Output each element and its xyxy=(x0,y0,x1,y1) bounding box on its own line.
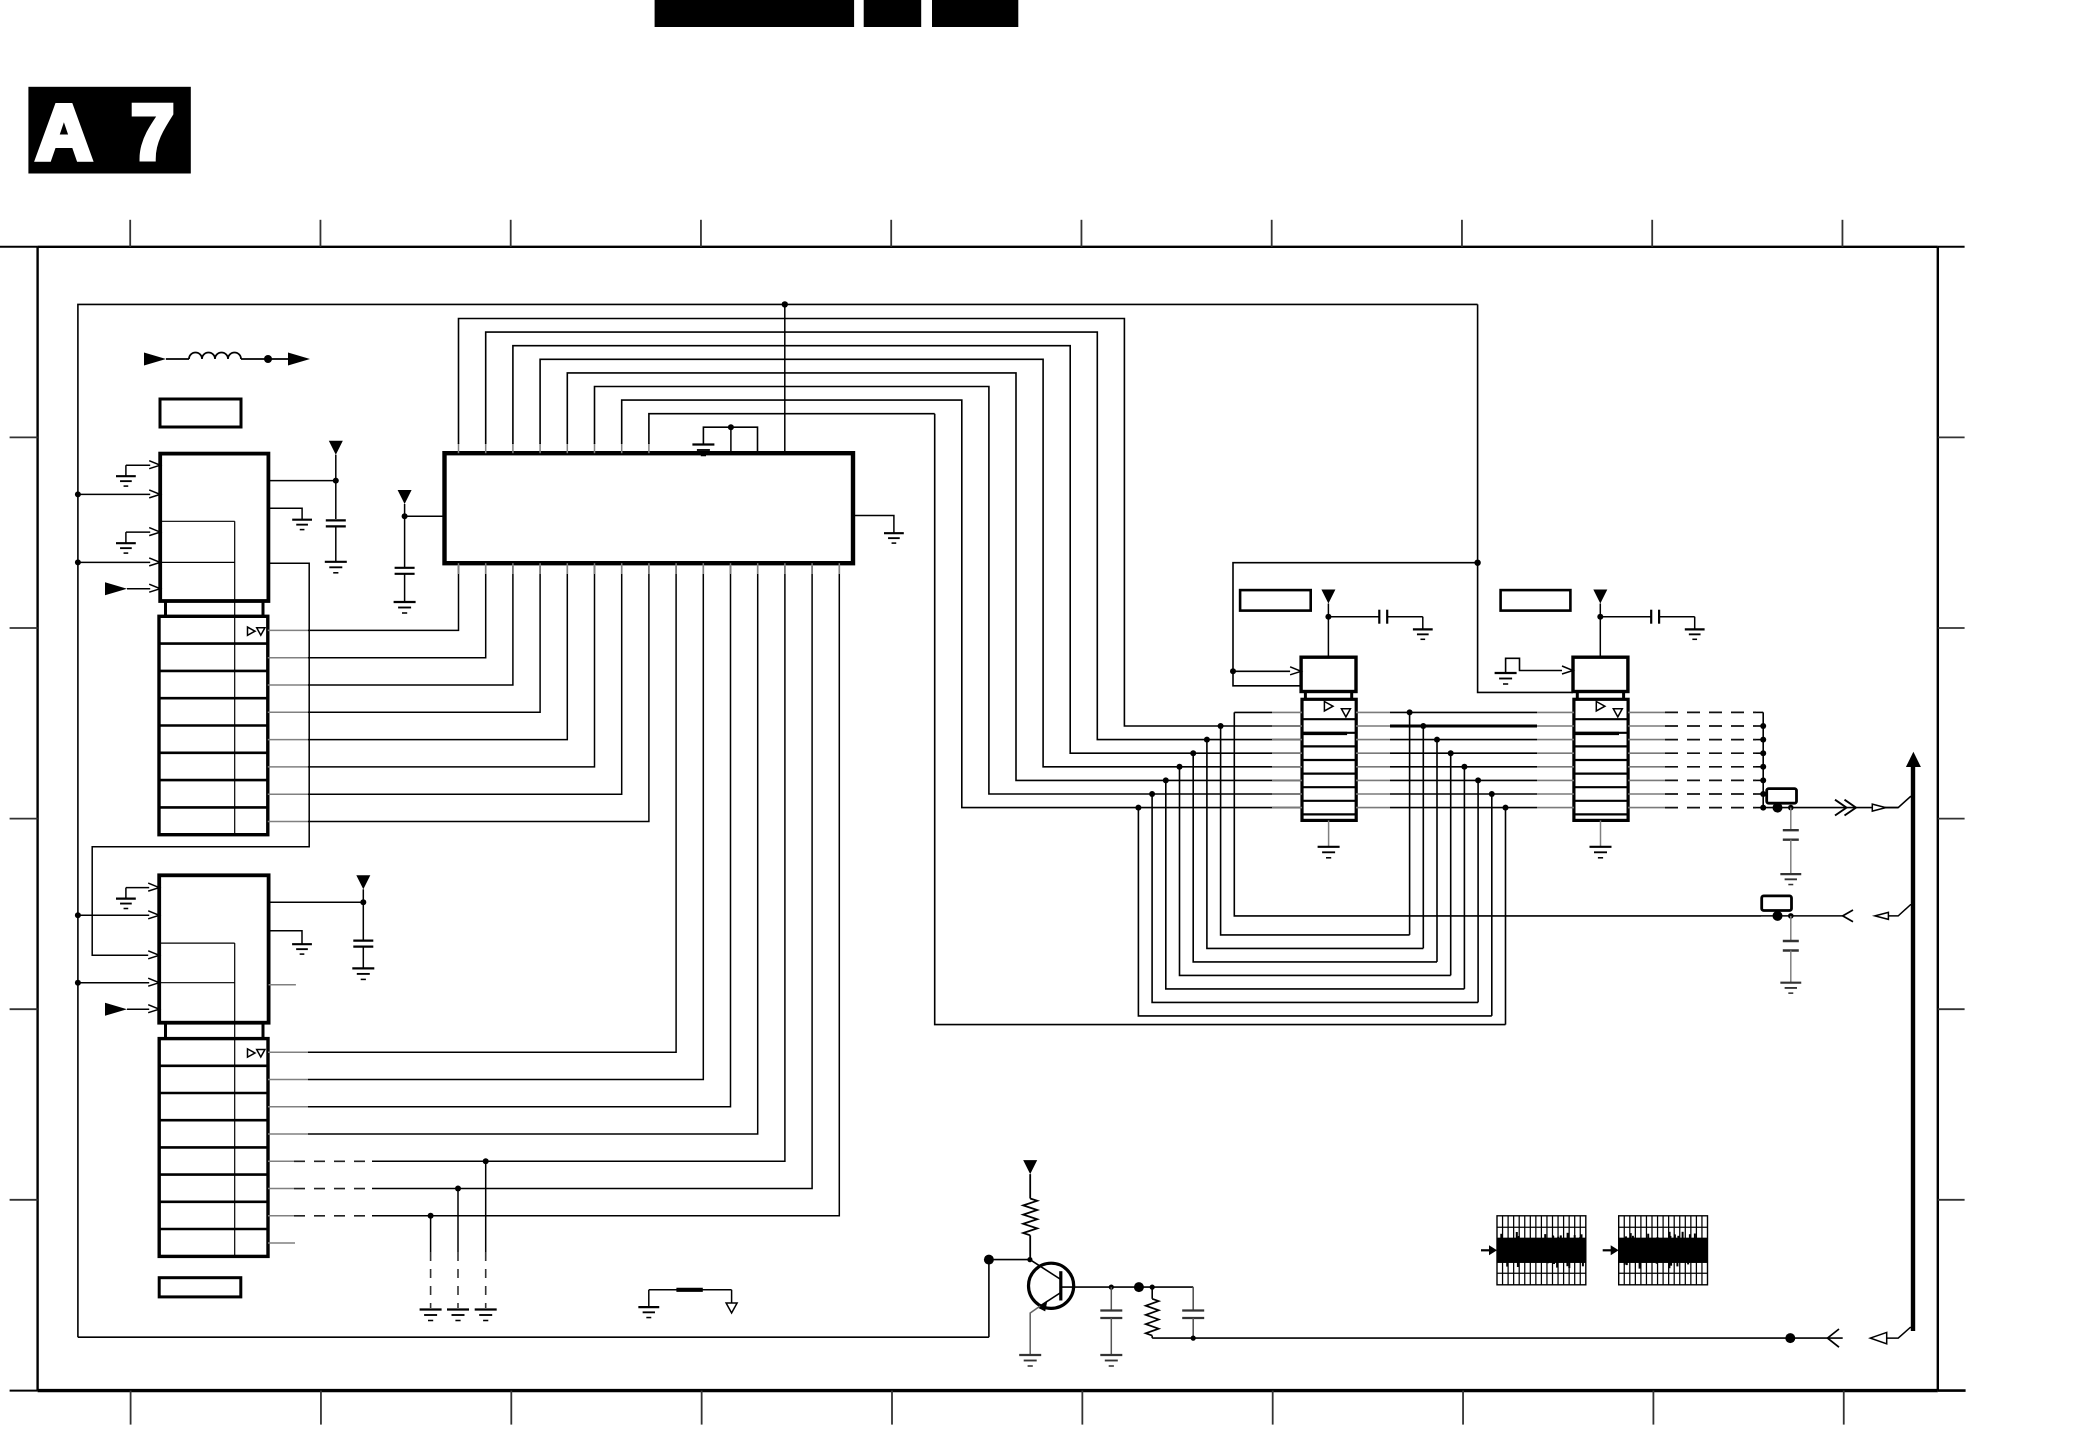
inverted mark U3 xyxy=(1613,709,1622,717)
wire J1 to VCC node xyxy=(268,480,335,482)
wire J1 row5 to U1 pin5 xyxy=(268,739,308,741)
wire row5 between U2 and U3 xyxy=(1356,766,1390,768)
junction row6 collector xyxy=(1760,777,1766,783)
junction loop U2/U3 xyxy=(1474,560,1480,566)
junction row4 left tap xyxy=(1190,750,1196,756)
redaction bar 2 xyxy=(864,0,922,27)
pin J1-3 with ground xyxy=(116,528,160,554)
value label box output 1 xyxy=(1767,789,1797,804)
stub J2 row8 xyxy=(268,1242,295,1244)
junction output 1 cap xyxy=(1788,805,1794,811)
wire U1 top bracket xyxy=(703,427,757,453)
wire row4 right tap vertical xyxy=(1450,753,1452,975)
ground below C1 xyxy=(325,561,347,563)
wire row1 right of U3 (dashed) xyxy=(1628,711,1665,713)
power VCC arrow at J1 xyxy=(329,441,343,455)
junction VCC U1 xyxy=(402,513,408,519)
connector J2 body xyxy=(159,875,268,1038)
wire row8 right of U3 (dashed) xyxy=(1628,807,1665,809)
wire row1 between U2 and U3 xyxy=(1356,711,1390,713)
wire loop to U3 enable xyxy=(1478,563,1573,693)
wire output 1 to bus xyxy=(1885,797,1914,808)
pin stubs U1 bottom 1-8 xyxy=(459,563,649,574)
jumper W1 with grounds xyxy=(649,1290,732,1307)
wire VCC stem U2 xyxy=(1327,604,1329,658)
ground at U1 top bracket xyxy=(692,443,714,445)
pin J1 ground right xyxy=(268,508,302,519)
arrow into FB1 xyxy=(1481,1245,1497,1255)
wire U1 top pin6 bus xyxy=(594,443,596,453)
frame tick marks bottom xyxy=(131,1391,1844,1425)
wire J1 right pin to J2 xyxy=(92,563,309,955)
ground at U1 right pin xyxy=(884,532,904,534)
transistor Q1 xyxy=(1029,1260,1074,1355)
wire row4 right of U3 (dashed) xyxy=(1628,752,1665,754)
wire base node xyxy=(989,1259,1030,1261)
shield block FB2 xyxy=(1619,1216,1708,1285)
arrow into FB2 xyxy=(1603,1245,1619,1255)
wire U1 pin8 long route to B2 row1 xyxy=(935,414,1506,1025)
bar inside U3 xyxy=(1574,732,1619,735)
IC U2 upper body xyxy=(1301,657,1356,699)
value label box U3 xyxy=(1501,590,1571,611)
power VCC arrow at J2 xyxy=(356,875,370,889)
open triangle at jumper right xyxy=(726,1303,737,1313)
wire row2 right tap vertical xyxy=(1422,726,1424,948)
frame tick marks left xyxy=(10,437,38,1199)
junction row1 right tap xyxy=(1407,709,1413,715)
ground below C6 xyxy=(1100,1354,1122,1356)
wire ground tap row5 xyxy=(485,1161,487,1252)
junction row8 left tap xyxy=(1135,805,1141,811)
frame tick marks top xyxy=(130,220,1842,247)
IC U3 upper body xyxy=(1573,657,1628,699)
wire row8 right tap vertical xyxy=(1505,808,1507,1025)
wire J1 row3 to U1 pin3 xyxy=(268,684,308,686)
wire VCC stem J1 xyxy=(335,455,337,519)
junction row5 right tap xyxy=(1461,764,1467,770)
wire VCC to U1 left pin xyxy=(405,504,445,568)
ground tap row6 xyxy=(447,1308,469,1310)
junction VCC U2 xyxy=(1325,614,1331,620)
junction row3 collector xyxy=(1760,737,1766,743)
wire row2 left of U2 xyxy=(1272,725,1302,727)
wire row4 left of U2 xyxy=(1272,752,1302,754)
wire row5 right tap vertical xyxy=(1463,767,1465,989)
wire row4 U-loop bottom xyxy=(1193,753,1437,962)
capacitor C3 xyxy=(395,568,415,602)
wire U1 top pin7 bus xyxy=(621,443,623,453)
junction row2 right tap xyxy=(1420,723,1426,729)
value label box U2 xyxy=(1240,590,1311,611)
wire emitter net bottom xyxy=(1152,1337,1843,1339)
bar inside U2 xyxy=(1302,732,1347,735)
capacitor C6 xyxy=(1100,1287,1122,1355)
wire ground tap row7 xyxy=(430,1216,432,1252)
power VCC arrow at U1 left xyxy=(398,490,412,504)
node big output 1 xyxy=(1773,803,1783,813)
wire row7 right of U3 (dashed) xyxy=(1628,793,1665,795)
wire J2 to VCC node xyxy=(269,901,364,903)
power VCC arrow at Q1 xyxy=(1023,1160,1037,1174)
inverted mark U2 xyxy=(1341,709,1350,717)
connector J1 pin table xyxy=(159,616,268,834)
wire U1 top pin5 bus xyxy=(566,443,568,453)
junction row5 left tap xyxy=(1177,764,1183,770)
chevron bottom input xyxy=(1828,1329,1840,1347)
open arrow bottom input xyxy=(1870,1332,1886,1343)
pin stubs U1 bottom 9-15 xyxy=(676,563,839,574)
wire row7 right tap vertical xyxy=(1491,794,1493,1016)
wire VCC stem U3 xyxy=(1599,604,1601,658)
wire row6 U-loop bottom xyxy=(1166,780,1465,989)
ground below U3 xyxy=(1590,846,1612,848)
junction row7 left tap xyxy=(1149,791,1155,797)
power VCC arrow at U2 xyxy=(1321,590,1335,604)
wire row1 left of U2 xyxy=(1234,711,1272,713)
chevron input 1 xyxy=(1843,910,1853,922)
wire row8 left of U2 xyxy=(1272,807,1302,809)
bus wires J1 rows to U1 pins 1-8 xyxy=(268,566,649,822)
wire Q1 base lead xyxy=(1061,1286,1193,1288)
signal arrow out of inductor xyxy=(288,353,310,366)
wire main loop left/top/bottom xyxy=(78,304,1478,1337)
pin arrow U3 enable xyxy=(1562,666,1573,674)
ground at J1 right pin xyxy=(292,519,312,521)
node big input 1 xyxy=(1773,911,1783,921)
clock mark U2 xyxy=(1324,701,1333,710)
wire J2 row3 to U1 pin11 xyxy=(268,1106,308,1108)
junction row2 collector xyxy=(1760,723,1766,729)
wire J2 row4 to U1 pin12 xyxy=(268,1133,308,1135)
junction node after L1 xyxy=(264,355,272,363)
ground at U3 VCC cap xyxy=(1685,628,1705,630)
wire row1 U-loop to right edge xyxy=(1234,712,1761,916)
junction row4 collector xyxy=(1760,750,1766,756)
junction row4 right tap xyxy=(1448,750,1454,756)
ground at jumper left xyxy=(638,1306,659,1308)
wire VCC to R1 xyxy=(1029,1174,1031,1198)
wire U1 top riser to main loop xyxy=(784,304,786,453)
connector J1 body xyxy=(160,454,268,617)
wire row7 U-loop bottom xyxy=(1152,794,1478,1002)
junction input 1 cap xyxy=(1788,913,1794,919)
resistor R1 xyxy=(1023,1199,1037,1236)
junction U2 enable xyxy=(1230,668,1236,674)
wire row3 left of U2 xyxy=(1272,739,1302,741)
sheet border frame xyxy=(0,247,1966,1391)
capacitor at U2 VCC xyxy=(1328,610,1422,630)
node big base lead xyxy=(1134,1282,1144,1292)
junction VCC J2 xyxy=(360,899,366,905)
shield block FB1 xyxy=(1497,1216,1586,1285)
junction VCC U3 xyxy=(1597,614,1603,620)
ground below C3 xyxy=(394,601,416,603)
frame tick marks right xyxy=(1938,437,1965,1199)
wire J1 row6 to U1 pin6 xyxy=(268,766,308,768)
redaction bar 3 xyxy=(932,0,1018,27)
junction row6 left tap xyxy=(1163,777,1169,783)
junction row6 right tap xyxy=(1475,777,1481,783)
wire U1 top pin8 bus xyxy=(648,443,650,453)
junction bracket xyxy=(728,424,734,430)
wire J2 row2 to U1 pin10 xyxy=(268,1078,308,1080)
wire row3 between U2 and U3 xyxy=(1356,739,1390,741)
wire bottom input from bus xyxy=(1887,1328,1914,1339)
ground below C2 xyxy=(352,967,374,969)
capacitor C1 xyxy=(326,520,346,561)
junction row8 collector xyxy=(1760,805,1766,811)
wire row3 right tap vertical xyxy=(1436,740,1438,962)
junction row7 collector xyxy=(1760,791,1766,797)
node on top wire at IC riser xyxy=(782,301,788,307)
wire row5 right of U3 (dashed) xyxy=(1628,766,1665,768)
wire J1 internal xyxy=(160,521,235,616)
junction row3 left tap xyxy=(1204,737,1210,743)
svg-text:A 7: A 7 xyxy=(36,88,185,176)
wire J2 row1 to U1 pin9 xyxy=(268,1051,308,1053)
wire J2 internal xyxy=(159,943,235,1039)
wire row2 U-loop bottom xyxy=(1221,726,1410,935)
node big Q1 base xyxy=(984,1255,994,1265)
clock mark U3 xyxy=(1596,701,1605,710)
wire collector vertical to output xyxy=(1763,712,1898,807)
junction row2 left tap xyxy=(1218,723,1224,729)
wire J2 row6 to U1 pin14 (dashed section) xyxy=(268,1188,294,1190)
wire row1 right tap vertical xyxy=(1409,712,1411,935)
wire J1 row7 to U1 pin7 xyxy=(268,793,308,795)
signal arrow into inductor L1 xyxy=(144,353,166,366)
wire U1 top pin1 bus xyxy=(458,443,460,453)
junction J1-4 on loop xyxy=(75,559,81,565)
inverted mark J2 row1 xyxy=(257,1050,265,1058)
ground below U2 xyxy=(1318,846,1340,848)
wire row5 left of U2 xyxy=(1272,766,1302,768)
wire J1 row2 to U1 pin2 xyxy=(268,657,308,659)
ground at Q1 emitter xyxy=(1019,1354,1041,1356)
connector J2 pin table xyxy=(159,1039,268,1257)
IC U1 body xyxy=(445,453,854,563)
wire row7 between U2 and U3 xyxy=(1356,793,1390,795)
wire row6 between U2 and U3 xyxy=(1356,779,1390,781)
wire row2 right of U3 (dashed) xyxy=(1628,725,1665,727)
ground at J2 right pin xyxy=(292,943,312,945)
IC U3 pin table xyxy=(1574,699,1628,820)
junction C6 tap xyxy=(1109,1285,1114,1290)
capacitor C7 xyxy=(1182,1287,1204,1338)
value label box L1 xyxy=(160,399,241,427)
ground tap row5 xyxy=(475,1308,497,1310)
wire R1 to Q1 collector xyxy=(1029,1235,1031,1259)
pin J1-2 wire to bus xyxy=(78,490,160,498)
pin J2-2 wire to bus xyxy=(78,911,159,919)
wire U3 table to ground xyxy=(1600,820,1602,846)
wire U1 top pin2 bus xyxy=(485,443,487,453)
wire row7 left of U2 xyxy=(1272,793,1302,795)
power VCC arrow at U3 xyxy=(1593,590,1607,604)
bus arrow vertical xyxy=(1906,752,1921,1331)
junction R2 top xyxy=(1150,1285,1155,1290)
wire row4 between U2 and U3 xyxy=(1356,752,1390,754)
capacitor C4 at output 1 xyxy=(1783,808,1799,874)
wire J2 row5 to U1 pin13 (dashed section) xyxy=(268,1160,294,1162)
value label box input 1 xyxy=(1762,896,1792,911)
clock mark J1 row1 xyxy=(248,627,256,635)
bus wires U1 top pins to right xyxy=(459,319,1303,808)
redaction bar 1 xyxy=(655,0,855,27)
bus wires J2 rows to U1 pins 9-15 xyxy=(268,566,839,1321)
ground below C4 xyxy=(1780,873,1801,875)
junction J2-4 on loop xyxy=(75,980,81,986)
junction row7 right tap xyxy=(1489,791,1495,797)
capacitor at U3 VCC xyxy=(1600,610,1694,630)
resistor R2 xyxy=(1146,1287,1159,1338)
value label box under J2 xyxy=(159,1278,241,1297)
bus wires B1 rows with taps xyxy=(1135,709,1766,1024)
junction J2-2 on loop xyxy=(75,912,81,918)
wire U1 right pin to ground xyxy=(853,516,894,534)
wire row3 U-loop bottom xyxy=(1207,740,1423,949)
wire input 1 horizontal xyxy=(1761,915,1843,917)
wire input 1 from bus xyxy=(1888,905,1914,916)
wire U2 table to ground xyxy=(1328,820,1330,846)
pin J2 ground right xyxy=(269,931,302,944)
junction row3 right tap xyxy=(1434,737,1440,743)
wire J2 row7 to U1 pin15 (dashed section) xyxy=(268,1215,294,1217)
pin J2-5 input arrow xyxy=(105,1003,159,1016)
pin J1-1 with ground xyxy=(116,461,160,486)
pin J2-1 with ground xyxy=(116,883,159,908)
wire J1 row4 to U1 pin4 xyxy=(268,711,308,713)
node big bottom wire xyxy=(1785,1333,1795,1343)
wire U1 top pin4 bus xyxy=(539,443,541,453)
wire row2 between U2 and U3 xyxy=(1356,725,1390,727)
junction C7 bottom xyxy=(1191,1336,1196,1341)
wire row6 right of U3 (dashed) xyxy=(1628,779,1665,781)
wire row6 right tap vertical xyxy=(1477,780,1479,1002)
stub J2 right pin3 xyxy=(269,984,296,986)
open arrow input 1 xyxy=(1875,912,1889,919)
junction row5 collector xyxy=(1760,764,1766,770)
pin J1-5 input arrow xyxy=(105,582,160,595)
IC U2 pin table xyxy=(1302,699,1356,820)
wire J1 row1 to U1 pin1 xyxy=(268,629,308,631)
pin arrow U2 enable xyxy=(1290,667,1301,675)
inverted mark J1 row1 xyxy=(257,628,265,636)
wire row5 U-loop bottom xyxy=(1180,767,1451,976)
wire loop to U2 enable xyxy=(1233,304,1478,685)
pulse symbol and ground at U3 xyxy=(1506,658,1564,672)
open arrow output 1 xyxy=(1872,804,1886,811)
ground below C5 xyxy=(1780,982,1801,984)
wire ground tap row6 xyxy=(457,1189,459,1252)
wire row8 U-loop bottom xyxy=(1138,808,1491,1016)
junction VCC J1 xyxy=(333,478,339,484)
capacitor C5 at input 1 xyxy=(1783,916,1799,983)
pin J1-4 wire to bus xyxy=(78,558,160,566)
clock mark J2 row1 xyxy=(248,1049,256,1057)
pin J2-4 wire to bus xyxy=(78,978,159,986)
wire VCC stem J2 xyxy=(362,889,364,940)
pin J2-3 wire from J1 xyxy=(148,951,159,959)
junction row8 right tap xyxy=(1503,805,1509,811)
wire U1 top pin3 bus xyxy=(512,443,514,453)
wire loop bottom riser to base node xyxy=(988,1260,990,1338)
ground at U2 VCC cap xyxy=(1413,628,1433,630)
junction ground tap row5 xyxy=(483,1158,489,1164)
ground tap row7 xyxy=(420,1308,442,1310)
sheet label A7 xyxy=(28,87,190,176)
wire row3 right of U3 (dashed) xyxy=(1628,739,1665,741)
inductor L1 xyxy=(166,353,296,360)
ground at U3 pulse xyxy=(1495,672,1517,674)
junction ground tap row6 xyxy=(455,1186,461,1192)
wire J1 row8 to U1 pin8 xyxy=(268,821,308,823)
capacitor C2 xyxy=(353,941,373,969)
wire row6 left of U2 xyxy=(1272,779,1302,781)
junction J1-2 on loop xyxy=(75,491,81,497)
junction Q1 collector xyxy=(1027,1257,1032,1262)
junction ground tap row7 xyxy=(428,1213,434,1219)
wire row8 between U2 and U3 xyxy=(1356,807,1390,809)
chevrons output 1 xyxy=(1835,800,1856,816)
